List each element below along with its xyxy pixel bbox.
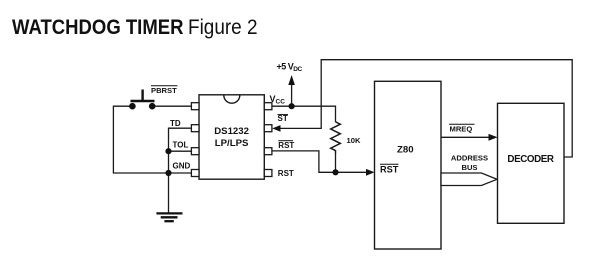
wire MREQ bbox=[441, 136, 490, 138]
pin 6 RST-bar bbox=[264, 148, 272, 155]
arrowhead into Z80 RST bbox=[366, 169, 375, 176]
svg-text:+5 VDC: +5 VDC bbox=[277, 62, 303, 74]
svg-text:RST: RST bbox=[278, 169, 294, 178]
block DECODER bbox=[498, 103, 565, 223]
node RST junction bbox=[332, 169, 338, 175]
node Vcc junction bbox=[289, 103, 295, 109]
svg-text:DS1232: DS1232 bbox=[214, 126, 249, 137]
svg-text:MREQ: MREQ bbox=[450, 125, 473, 134]
wire RST-bar pin to node bbox=[272, 151, 336, 172]
node GND junction bbox=[165, 170, 171, 176]
pin 7 ST bbox=[264, 125, 272, 132]
svg-text:10K: 10K bbox=[347, 136, 361, 145]
label RST-bar overline bbox=[278, 140, 293, 142]
arrowhead into ST pin bbox=[272, 125, 280, 132]
svg-text:BUS: BUS bbox=[461, 163, 477, 172]
pin 3 TOL bbox=[191, 148, 199, 155]
node TOL junction bbox=[165, 148, 171, 154]
pin 4 GND bbox=[191, 170, 199, 177]
wire pushbutton to pin PBRST bbox=[152, 105, 191, 107]
bus ADDRESS arrow bbox=[441, 173, 497, 186]
svg-text:GND: GND bbox=[173, 162, 191, 171]
arrowhead MREQ into decoder bbox=[489, 134, 498, 141]
svg-text:PBRST: PBRST bbox=[151, 86, 177, 95]
svg-text:LP/LPS: LP/LPS bbox=[215, 138, 249, 149]
svg-text:TD: TD bbox=[170, 119, 181, 128]
label ST overline bbox=[278, 114, 289, 116]
block Z80 bbox=[375, 81, 442, 249]
svg-text:DECODER: DECODER bbox=[507, 154, 554, 165]
svg-text:TOL: TOL bbox=[173, 141, 189, 150]
pin 2 TD bbox=[191, 125, 199, 132]
svg-text:ST: ST bbox=[278, 114, 288, 123]
svg-text:RST: RST bbox=[380, 164, 399, 174]
wire Vcc pin to node bbox=[272, 105, 292, 107]
wire ST from decoder: top run bbox=[280, 60, 572, 157]
pin 5 RST bbox=[264, 170, 272, 177]
wire RST node to Z80 bbox=[336, 171, 368, 173]
svg-text:ADDRESS: ADDRESS bbox=[451, 154, 488, 163]
wire Vcc node to resistor top bbox=[292, 106, 336, 122]
wire +5V riser bbox=[291, 84, 293, 106]
wire pushbutton left loop to ground node bbox=[113, 106, 168, 173]
svg-text:Figure 2: Figure 2 bbox=[188, 15, 258, 39]
svg-text:Z80: Z80 bbox=[397, 144, 414, 155]
label RST inside Z80 bbox=[380, 163, 399, 165]
wire resistor bottom to node bbox=[335, 154, 337, 173]
IC U1 DS1232 body bbox=[199, 95, 264, 179]
pushbutton PBRST bbox=[129, 86, 177, 110]
pin 1 PBRST bbox=[191, 103, 199, 110]
power +5 VDC arrow bbox=[288, 75, 295, 85]
svg-text:VCC: VCC bbox=[270, 94, 286, 106]
ground bbox=[156, 213, 182, 221]
pin 8 Vcc bbox=[264, 103, 272, 110]
svg-text:RST: RST bbox=[278, 141, 294, 150]
svg-text:WATCHDOG TIMER: WATCHDOG TIMER bbox=[12, 15, 184, 39]
wire ground stem bbox=[168, 173, 170, 213]
wire TD trunk down to ground node bbox=[169, 128, 192, 173]
wire TOL bbox=[169, 150, 192, 152]
wire GND pin bbox=[169, 172, 192, 174]
resistor R 10K bbox=[331, 122, 341, 154]
label MREQ bbox=[449, 123, 474, 125]
